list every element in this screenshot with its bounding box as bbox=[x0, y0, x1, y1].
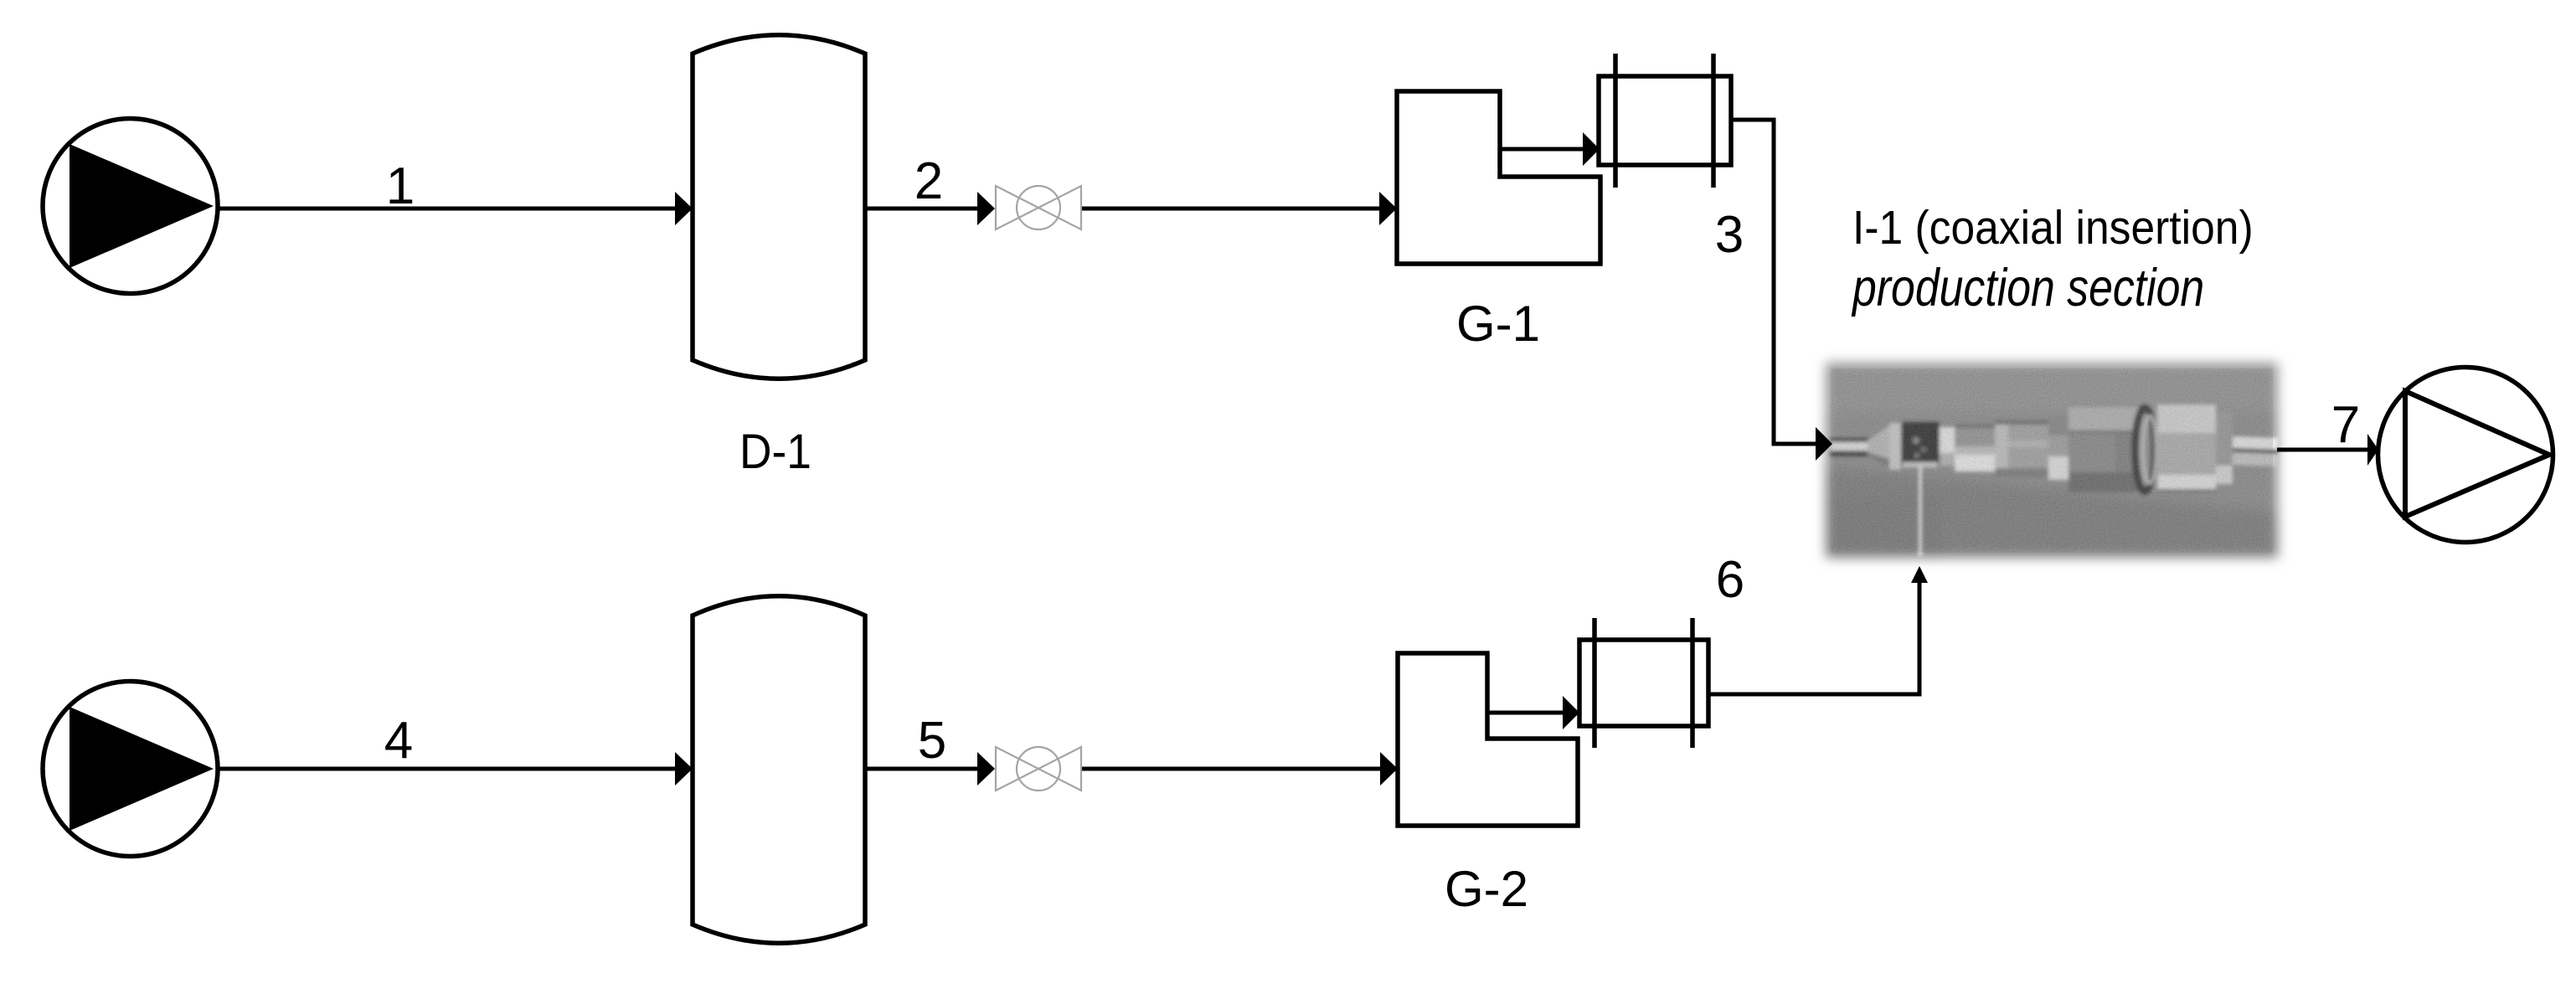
svg-text:2: 2 bbox=[914, 152, 943, 210]
svg-text:1: 1 bbox=[386, 157, 415, 215]
svg-text:G-2: G-2 bbox=[1445, 861, 1528, 917]
svg-text:5: 5 bbox=[918, 712, 946, 770]
svg-text:7: 7 bbox=[2331, 396, 2360, 454]
svg-text:D-1: D-1 bbox=[739, 425, 811, 479]
svg-text:G-1: G-1 bbox=[1456, 296, 1540, 352]
svg-text:4: 4 bbox=[384, 712, 413, 770]
svg-text:I-1 (coaxial insertion): I-1 (coaxial insertion) bbox=[1852, 201, 2254, 255]
svg-text:3: 3 bbox=[1715, 206, 1744, 264]
svg-text:6: 6 bbox=[1716, 551, 1744, 609]
svg-text:production section: production section bbox=[1851, 259, 2204, 317]
